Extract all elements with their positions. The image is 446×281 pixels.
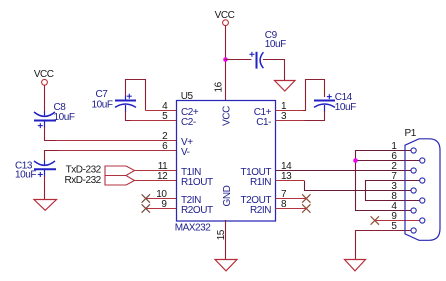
wire junction to C9	[226, 59, 252, 61]
no-connect X P1 pin 9	[371, 216, 379, 224]
svg-text:12: 12	[157, 171, 168, 182]
svg-text:MAX232: MAX232	[175, 223, 212, 234]
svg-text:10uF: 10uF	[15, 169, 36, 180]
ground (C9)	[275, 81, 296, 92]
svg-text:5: 5	[391, 221, 397, 232]
svg-text:R2OUT: R2OUT	[181, 205, 213, 216]
svg-text:VCC: VCC	[222, 106, 233, 126]
wire C7 bottom to pin 5	[126, 111, 134, 121]
svg-text:10uF: 10uF	[335, 102, 356, 113]
wire pin 15 to ground	[225, 220, 227, 260]
svg-text:10uF: 10uF	[92, 99, 113, 110]
wire R1IN to P1 pin 3	[276, 180, 305, 182]
wire stub pin 9	[146, 208, 177, 210]
P1 pad pin 6	[420, 158, 425, 163]
power symbol VCC (top)	[215, 10, 235, 26]
P1 pad pin 5	[411, 228, 416, 233]
capacitor C9	[249, 30, 286, 68]
wire T1OUT to P1 pin 2	[276, 170, 412, 172]
no-connect X pin 9	[142, 204, 150, 212]
wire C9 to ground	[263, 60, 285, 81]
capacitor C14	[314, 92, 356, 113]
wire C7 top loop to pin 4	[126, 80, 146, 111]
svg-text:10uF: 10uF	[265, 39, 286, 50]
P1 pad pin 9	[420, 218, 425, 223]
wire RxD port to pin 12	[135, 180, 177, 182]
ground (C13)	[34, 200, 57, 211]
P1 pad pin 8	[420, 198, 425, 203]
no-connect X pin 10	[142, 194, 150, 202]
svg-text:10uF: 10uF	[54, 112, 75, 123]
svg-text:C1-: C1-	[256, 117, 271, 128]
wire P1 pins 7-8 tie	[366, 181, 420, 201]
wire TxD port to pin 11	[135, 170, 177, 172]
wire stub P1 pin 9	[375, 220, 420, 222]
ground (P1 pin 5)	[345, 260, 366, 271]
capacitor C7	[92, 89, 137, 112]
svg-text:5: 5	[162, 111, 168, 122]
svg-text:GND: GND	[222, 185, 233, 206]
wire P1 pin 5 to ground	[356, 231, 412, 260]
svg-text:9: 9	[161, 199, 167, 210]
wire VCC to C8	[44, 85, 46, 111]
P1 pad pin 7	[420, 178, 425, 183]
port RxD-232	[64, 175, 134, 186]
wire VCC vertical to pin 16	[225, 26, 227, 101]
svg-text:R1IN: R1IN	[250, 177, 271, 188]
svg-text:6: 6	[162, 141, 168, 152]
capacitor C8	[34, 102, 75, 128]
connector P1 DB9 body	[405, 128, 441, 240]
wire C14 bottom to pin 3	[304, 111, 325, 121]
wire P1 pins 1-6-4 tie	[356, 151, 420, 211]
svg-text:16: 16	[214, 81, 225, 92]
svg-text:RxD-232: RxD-232	[64, 175, 101, 186]
node junction VCC/C9	[223, 57, 228, 62]
no-connect X pin 8	[302, 204, 310, 212]
wire stub pin 8	[276, 208, 307, 210]
svg-text:V-: V-	[181, 147, 190, 158]
P1 pad pin 3	[411, 188, 416, 193]
P1 pad pin 4	[411, 208, 416, 213]
svg-text:TxD-232: TxD-232	[66, 164, 102, 175]
wire V- rail to C13	[56, 150, 177, 152]
node junction P1 pin 6	[353, 158, 358, 163]
svg-text:VCC: VCC	[34, 69, 54, 80]
wire C8 to V+ rail	[45, 127, 59, 141]
svg-text:P1: P1	[405, 128, 417, 139]
port TxD-232	[66, 164, 135, 175]
capacitor C13	[15, 161, 56, 181]
power symbol VCC (left)	[34, 69, 54, 85]
svg-text:U5: U5	[181, 91, 194, 102]
wire stub pin 7	[276, 198, 307, 200]
ground (IC pin 15)	[215, 260, 237, 271]
IC U5 MAX232 body	[175, 91, 276, 234]
svg-text:C2-: C2-	[181, 117, 196, 128]
P1 pad pin 1	[411, 148, 416, 153]
no-connect X pin 7	[302, 194, 310, 202]
svg-text:R1OUT: R1OUT	[181, 177, 213, 188]
wire stub pin 10	[146, 198, 177, 200]
P1 pad pin 2	[411, 168, 416, 173]
svg-text:R2IN: R2IN	[250, 205, 271, 216]
wire pin 1 loop to C14	[276, 110, 304, 112]
svg-text:VCC: VCC	[215, 10, 235, 21]
wire C13 to ground	[44, 176, 46, 200]
